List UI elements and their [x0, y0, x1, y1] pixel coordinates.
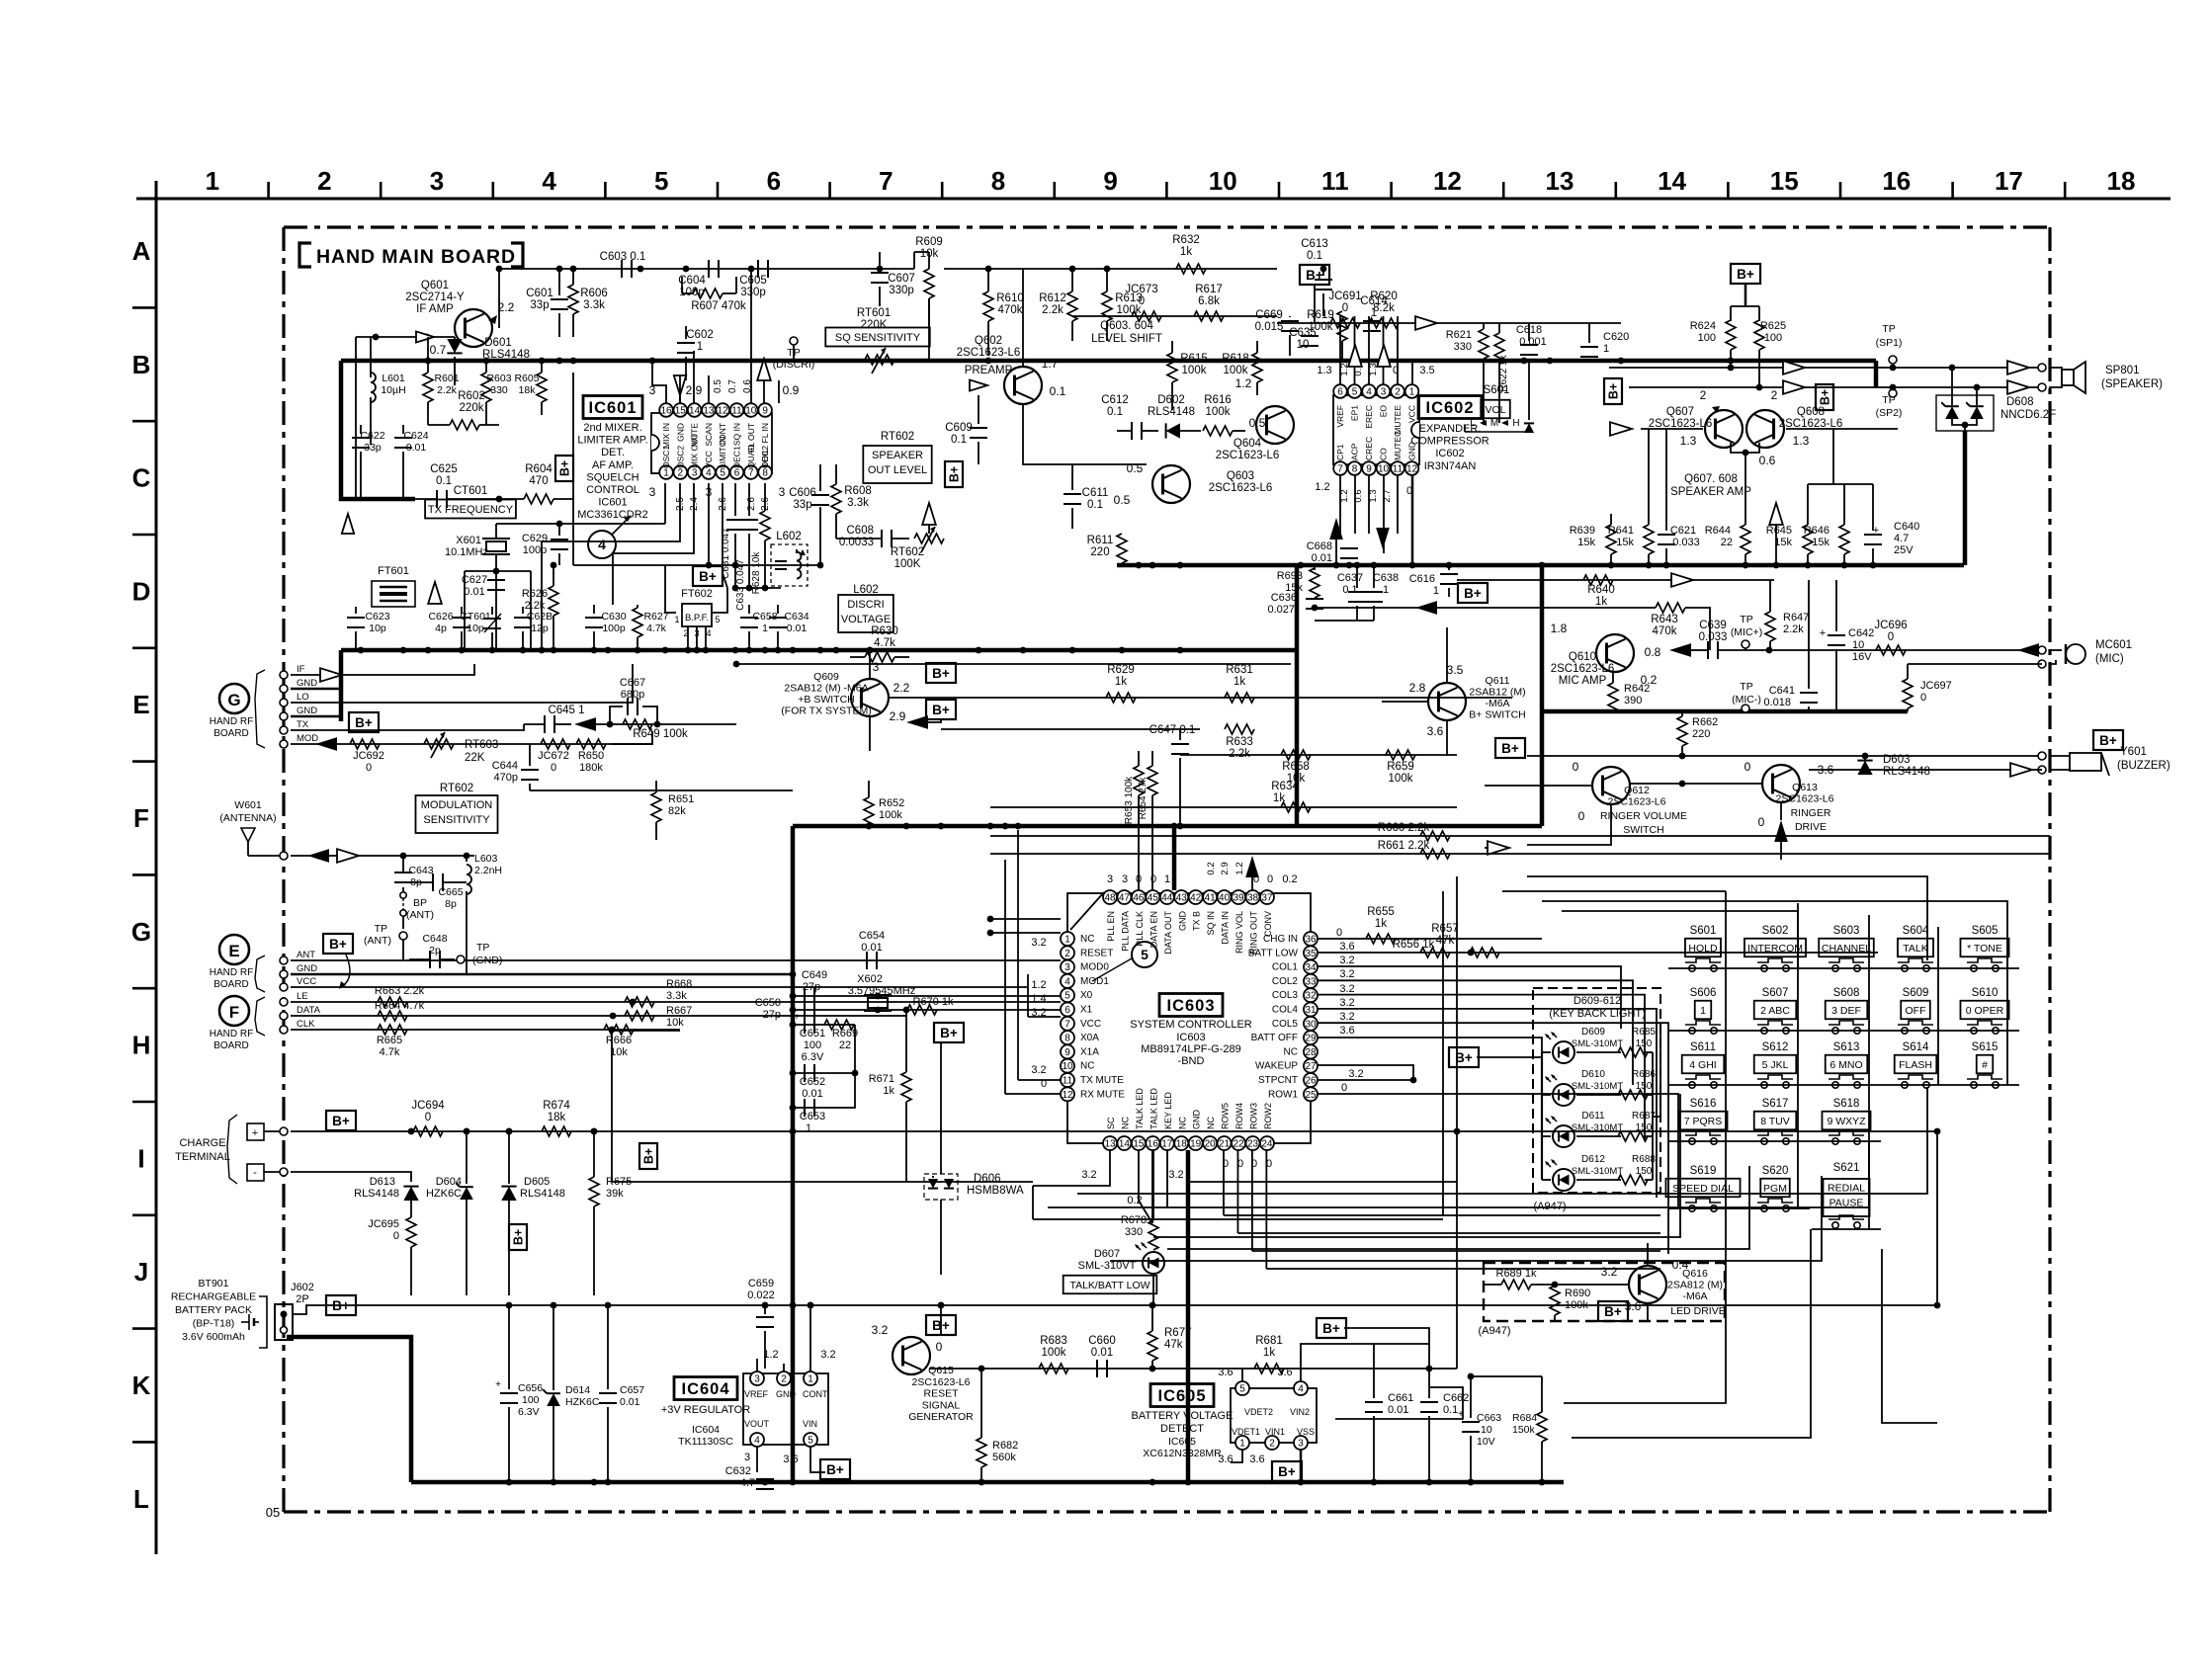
svg-text:100k: 100k	[1224, 365, 1248, 376]
svg-text:3: 3	[1298, 1439, 1304, 1450]
svg-text:R629: R629	[1107, 664, 1135, 676]
svg-text:C643: C643	[408, 865, 433, 876]
wire nest br 6	[612, 1181, 1033, 1183]
svg-text:-M6A: -M6A	[1485, 698, 1509, 709]
capacitor C607	[871, 252, 889, 306]
svg-text:33p: 33p	[793, 499, 811, 511]
svg-text:R661 2.2k: R661 2.2k	[1378, 840, 1430, 852]
svg-text:2.2k: 2.2k	[1042, 304, 1063, 316]
inductor L602 coil	[775, 549, 806, 579]
wire r669 corner	[854, 1025, 856, 1073]
label D612	[1572, 1154, 1623, 1177]
svg-text:330: 330	[490, 384, 508, 396]
svg-text:SC: SC	[1106, 1117, 1116, 1129]
svg-text:10: 10	[1209, 166, 1237, 196]
svg-text:EP1: EP1	[1350, 405, 1360, 421]
column tick 3|4	[491, 182, 494, 199]
svg-text:18: 18	[1176, 1139, 1188, 1150]
board outline dash-dot right	[2048, 227, 2051, 1512]
resistor R671	[869, 1007, 911, 1182]
switch S621 REDIAL PAUSE	[1823, 1162, 1869, 1228]
svg-text:5: 5	[1239, 1384, 1245, 1395]
svg-text:RESET: RESET	[1080, 948, 1113, 958]
label Q604	[1216, 438, 1280, 461]
arrow filled left q609	[906, 715, 941, 729]
svg-text:COL4: COL4	[1272, 1005, 1299, 1016]
svg-text:STPCNT: STPCNT	[1258, 1075, 1298, 1086]
svg-text:0: 0	[1336, 927, 1342, 939]
wire col lines	[1318, 966, 1668, 1254]
label Q616	[1667, 1268, 1726, 1317]
connector charge brace	[227, 1115, 237, 1184]
svg-text:(ANT): (ANT)	[406, 909, 434, 921]
wire spk base right	[1786, 429, 1898, 464]
capacitor C609	[970, 395, 987, 464]
capacitor C638	[1365, 565, 1399, 621]
svg-text:5: 5	[1141, 947, 1149, 962]
resistor R604	[496, 494, 573, 504]
arrow filled left MOD	[315, 737, 337, 751]
wire antenna line	[248, 852, 474, 860]
capacitor C605	[758, 260, 768, 278]
B+ boxed vertical d605	[509, 1224, 527, 1250]
svg-text:+: +	[252, 1127, 258, 1139]
svg-text:3: 3	[430, 166, 444, 196]
inductor L602 dashed box	[771, 544, 808, 586]
svg-text:TP: TP	[1740, 614, 1752, 625]
wire reset row	[929, 1366, 1457, 1372]
svg-text:D607: D607	[1094, 1248, 1120, 1260]
svg-text:ACP: ACP	[1350, 443, 1360, 460]
svg-text:C626: C626	[428, 611, 453, 623]
svg-text:C667: C667	[620, 677, 645, 689]
svg-text:X0: X0	[1080, 990, 1093, 1001]
svg-text:220: 220	[1090, 546, 1109, 558]
svg-text:12: 12	[718, 406, 729, 417]
resistor R617	[1194, 311, 1224, 321]
capacitor C602	[677, 326, 695, 380]
svg-text:R652: R652	[879, 797, 904, 809]
resistor R618	[1252, 341, 1262, 395]
svg-text:12: 12	[1433, 166, 1462, 196]
svg-text:2.6: 2.6	[746, 497, 757, 511]
svg-text:DATA IN: DATA IN	[1221, 911, 1231, 945]
svg-text:C642: C642	[1848, 627, 1874, 639]
svg-text:Q610: Q610	[1569, 651, 1596, 663]
wire G GND2	[291, 715, 341, 718]
B+ boxed symbol buz r	[2093, 730, 2123, 750]
B+ boxed rot c620	[1604, 378, 1622, 404]
svg-text:12p: 12p	[531, 623, 549, 634]
ground arrow TP DISCRI	[757, 359, 771, 403]
label C603	[600, 251, 646, 263]
svg-text:L601: L601	[382, 373, 405, 384]
svg-text:Q603: Q603	[1227, 470, 1254, 482]
wire preamp v	[1023, 269, 1147, 464]
arrow filled down ic602	[1376, 528, 1390, 549]
svg-text:IC604: IC604	[681, 1380, 729, 1398]
svg-text:R650: R650	[578, 750, 604, 762]
label D609	[1572, 1027, 1623, 1049]
wire bold gnd pin43 IC603	[1172, 826, 1177, 890]
svg-text:R667: R667	[666, 1005, 692, 1017]
svg-text:FLASH: FLASH	[1899, 1059, 1932, 1071]
svg-text:R662: R662	[1692, 716, 1718, 728]
component J602 connector	[259, 1296, 293, 1348]
svg-text:(ANT): (ANT)	[364, 935, 391, 947]
wire c659	[762, 1302, 769, 1314]
svg-text:220k: 220k	[460, 402, 484, 414]
label C614	[1360, 295, 1388, 319]
svg-text:S610: S610	[1972, 987, 1999, 999]
column label 12	[1433, 166, 1462, 196]
column label 16	[1882, 166, 1911, 196]
svg-text:3.6: 3.6	[1218, 1367, 1233, 1378]
svg-text:ROW1: ROW1	[1268, 1089, 1298, 1100]
svg-text:4: 4	[754, 1436, 760, 1447]
arrow filled left mic	[1669, 643, 1691, 657]
column label 7	[879, 166, 893, 196]
svg-text:SML-310MT: SML-310MT	[1572, 1166, 1623, 1177]
svg-text:14: 14	[1658, 166, 1686, 196]
svg-text:SENSITIVITY: SENSITIVITY	[423, 814, 490, 826]
label FT602	[681, 588, 713, 600]
diode D606 pair	[924, 1164, 958, 1200]
svg-text:150: 150	[1636, 1081, 1653, 1092]
svg-text:C62B: C62B	[527, 611, 553, 623]
node dots battery line	[506, 1302, 1941, 1309]
transistor Q602	[970, 367, 1042, 404]
svg-text:#: #	[1982, 1059, 1988, 1071]
svg-text:40: 40	[1219, 893, 1231, 904]
svg-text:B+: B+	[558, 460, 572, 476]
label F HAND RF BOARD	[210, 1029, 253, 1051]
op-amp IC601 body	[651, 413, 772, 473]
svg-text:D612: D612	[1581, 1154, 1605, 1165]
svg-text:HZK6C: HZK6C	[426, 1188, 462, 1200]
svg-text:R611: R611	[1087, 535, 1114, 546]
label C607	[888, 273, 915, 296]
svg-text:LIMITER AMP.: LIMITER AMP.	[577, 435, 647, 447]
svg-text:VOLTAGE: VOLTAGE	[841, 614, 891, 625]
svg-text:470k: 470k	[998, 304, 1023, 316]
transistor Q616	[1601, 1258, 1689, 1313]
B+ boxed symbol buz l	[1495, 738, 1525, 758]
wire c663 top	[1468, 1373, 1542, 1380]
transistor Q615	[872, 1323, 943, 1374]
label IC601 pin voltages bottom	[649, 485, 786, 511]
svg-text:R649 100k: R649 100k	[633, 728, 688, 740]
arrow filled up conv	[1245, 856, 1259, 890]
svg-text:2SC1623-L6: 2SC1623-L6	[1551, 663, 1615, 675]
label C604	[678, 275, 706, 298]
svg-text:R616: R616	[1204, 394, 1232, 406]
svg-text:11: 11	[1393, 464, 1404, 475]
svg-text:2SAB12 (M) -M6A: 2SAB12 (M) -M6A	[784, 683, 868, 695]
svg-text:X1A: X1A	[1080, 1046, 1099, 1057]
label Q607 608 SPEAKER AMP	[1670, 473, 1751, 498]
label R626	[522, 588, 548, 612]
svg-text:1k: 1k	[1273, 792, 1285, 804]
svg-text:3.6: 3.6	[1427, 724, 1444, 738]
svg-text:C669: C669	[1255, 309, 1283, 321]
transistor Q613	[1744, 760, 1800, 802]
wire pin15 down	[1139, 1150, 1152, 1223]
switch S612 5 JKL	[1754, 1041, 1797, 1088]
svg-text:S602: S602	[1762, 925, 1789, 937]
svg-text:22: 22	[1233, 1139, 1244, 1150]
svg-text:BOARD: BOARD	[213, 1040, 249, 1051]
svg-text:R601: R601	[434, 373, 459, 384]
resistor R689	[1484, 1268, 1629, 1289]
wire batt plus line	[293, 1305, 1937, 1314]
column tick 6|7	[828, 182, 831, 199]
wire q613 down	[1780, 803, 1782, 820]
svg-text:C654: C654	[859, 930, 885, 942]
label Q610	[1551, 651, 1615, 687]
wire keypad col2 down	[1572, 1229, 1811, 1438]
resistor R669	[824, 1020, 858, 1051]
wire G MOD	[291, 743, 652, 745]
svg-text:LE: LE	[297, 991, 308, 1002]
arrow open right f	[1485, 841, 1509, 855]
svg-text:RLS4148: RLS4148	[520, 1188, 565, 1200]
svg-text:R681: R681	[1255, 1335, 1283, 1347]
wire G LO	[291, 664, 633, 703]
svg-text:2: 2	[1700, 388, 1707, 402]
column label 15	[1770, 166, 1799, 196]
column tick 14|15	[1727, 182, 1730, 199]
resistor R688	[1618, 1175, 1653, 1185]
svg-text:Q601: Q601	[421, 280, 449, 291]
svg-text:(KEY BACK LIGHT): (KEY BACK LIGHT)	[1549, 1008, 1646, 1020]
arrow filled left mc601	[2017, 643, 2039, 657]
B+ boxed symbol q602	[945, 461, 963, 487]
label D601	[482, 337, 530, 361]
svg-text:VIN2: VIN2	[1290, 1407, 1310, 1417]
svg-text:BATT LOW: BATT LOW	[1248, 948, 1299, 958]
svg-text:1: 1	[1433, 585, 1439, 597]
resistor R606	[568, 269, 578, 337]
svg-text:B+: B+	[512, 1229, 526, 1245]
svg-text:S607: S607	[1762, 987, 1789, 999]
wire mod cont	[611, 731, 652, 744]
svg-text:S601: S601	[1690, 925, 1717, 937]
resistor R603	[481, 361, 491, 425]
svg-text:12: 12	[1406, 464, 1418, 475]
svg-text:B+: B+	[1278, 1464, 1296, 1479]
svg-text:0: 0	[1267, 873, 1273, 885]
svg-text:3.2: 3.2	[1168, 1169, 1183, 1181]
resistor R601	[423, 337, 433, 425]
svg-text:330p: 330p	[740, 287, 766, 298]
resistor JC695	[368, 1201, 416, 1295]
column tick 8|9	[1054, 182, 1057, 199]
wire c652 row	[790, 1070, 859, 1077]
svg-text:VREF: VREF	[744, 1389, 769, 1399]
svg-text:(A947): (A947)	[1533, 1201, 1566, 1212]
svg-text:IC605: IC605	[1168, 1436, 1196, 1448]
svg-text:S611: S611	[1690, 1041, 1716, 1053]
svg-text:DEC1: DEC1	[732, 446, 742, 468]
wire bottom GND bus bold	[411, 1480, 1564, 1485]
svg-text:25: 25	[1305, 1090, 1317, 1101]
label C669	[1255, 309, 1284, 333]
wire pin21-24 down	[1224, 1150, 1266, 1269]
svg-text:D608: D608	[2006, 396, 2034, 408]
svg-text:C650: C650	[755, 997, 781, 1009]
ground arrow spk	[1769, 503, 1783, 565]
row tick B	[132, 420, 156, 423]
wire ic605 loop	[1231, 1387, 1463, 1462]
svg-text:0: 0	[1342, 302, 1348, 314]
svg-text:R612: R612	[1039, 292, 1066, 304]
svg-text:DET.: DET.	[601, 447, 625, 458]
label q611 36	[1427, 724, 1444, 738]
switch S610 0 OPER	[1960, 987, 2008, 1034]
B+ boxed symbol c616	[1458, 583, 1488, 603]
svg-text:2.2k: 2.2k	[1783, 623, 1804, 635]
arrow filled left c636	[1415, 601, 1437, 615]
svg-text:CHANNEL: CHANNEL	[1822, 943, 1871, 955]
column label 2	[317, 166, 331, 196]
diode D614 zener	[543, 1305, 600, 1482]
wire nest br 2	[1077, 1087, 1927, 1194]
svg-text:S621: S621	[1833, 1162, 1860, 1174]
svg-text:R683: R683	[1040, 1335, 1067, 1347]
label Q601	[405, 280, 465, 315]
wire q611	[1382, 627, 1447, 756]
column tick 9|10	[1165, 182, 1168, 199]
component W601 antenna	[219, 799, 276, 856]
svg-text:R631: R631	[1226, 664, 1253, 676]
capacitor C647	[1149, 724, 1196, 826]
svg-text:D609-612: D609-612	[1574, 995, 1621, 1007]
test point TP MIC-	[1732, 681, 1761, 712]
svg-text:SWITCH: SWITCH	[1623, 824, 1663, 836]
svg-text:R606: R606	[580, 288, 608, 299]
svg-text:3.5: 3.5	[1419, 365, 1434, 376]
label R657	[1431, 923, 1499, 957]
B+ boxed symbol ic604	[820, 1459, 850, 1479]
wire keypad col1 down	[1564, 1208, 1726, 1403]
label C635	[1289, 327, 1317, 351]
svg-text:0: 0	[1136, 873, 1142, 885]
resistor R605	[537, 361, 547, 415]
svg-text:MC3361CDR2: MC3361CDR2	[577, 509, 648, 521]
capacitor C668	[1307, 540, 1358, 564]
svg-text:KEY LED: KEY LED	[1163, 1092, 1173, 1129]
svg-text:C641: C641	[1769, 685, 1795, 697]
svg-text:R634: R634	[1271, 781, 1299, 792]
wire jc697 line	[1908, 663, 2042, 665]
wire keypad row 3	[1668, 1084, 2019, 1086]
svg-text:14: 14	[1119, 1139, 1131, 1150]
wire keypad feed 2	[1502, 890, 1726, 892]
wire row 817	[990, 806, 1457, 808]
svg-text:JC691: JC691	[1328, 291, 1361, 302]
wire GND bus right bold	[1117, 563, 1964, 568]
arrow open right sp2b	[2007, 380, 2029, 394]
svg-text:1.2: 1.2	[1031, 979, 1046, 991]
svg-text:BOARD: BOARD	[213, 979, 249, 990]
svg-text:05: 05	[266, 1505, 280, 1520]
svg-text:2: 2	[781, 1374, 787, 1385]
svg-text:Q607. 608: Q607. 608	[1684, 473, 1738, 485]
svg-text:ROW4: ROW4	[1234, 1103, 1244, 1129]
wire mid h572	[573, 562, 820, 569]
svg-text:0.022: 0.022	[747, 1289, 775, 1301]
svg-text:R660 2.2k: R660 2.2k	[1378, 822, 1430, 834]
label IC601 functions	[577, 422, 648, 521]
svg-text:1: 1	[1700, 1005, 1706, 1017]
label RT602b	[891, 546, 924, 570]
svg-text:0.001: 0.001	[1519, 336, 1547, 348]
label Q615	[908, 1365, 974, 1423]
label q608 13	[1793, 434, 1810, 448]
wire keypad col 4	[1937, 927, 1939, 1085]
svg-text:SQUELCH: SQUELCH	[586, 471, 638, 483]
capacitor C608	[836, 530, 909, 547]
label R609	[915, 236, 943, 260]
row label L	[133, 1484, 149, 1514]
svg-text:2.2k: 2.2k	[437, 384, 458, 396]
label A947 b	[1478, 1325, 1510, 1337]
op-amp IC602 body	[1333, 395, 1419, 464]
label Q609	[781, 671, 871, 717]
svg-text:VDET1: VDET1	[1232, 1427, 1260, 1437]
svg-text:15k: 15k	[1812, 537, 1829, 548]
row tick C	[132, 534, 156, 537]
wire kp left vert	[1659, 1029, 1661, 1117]
svg-text:R693: R693	[1277, 570, 1303, 582]
wire bold D608 drop	[1963, 431, 1968, 565]
resistor R658	[1281, 750, 1311, 785]
svg-text:R668: R668	[666, 978, 692, 990]
svg-text:28: 28	[1305, 1047, 1317, 1058]
wire r681 up	[1344, 1328, 1429, 1369]
wire Q601 base	[356, 336, 455, 338]
svg-text:3: 3	[1064, 962, 1070, 973]
svg-text:C616: C616	[1409, 573, 1435, 585]
capacitor C606	[811, 464, 829, 568]
wire charge plus line	[264, 1127, 1937, 1135]
svg-text:31: 31	[1305, 1005, 1317, 1016]
svg-text:RINGER VOLUME: RINGER VOLUME	[1600, 810, 1687, 822]
led D6610	[1542, 1074, 1621, 1106]
wire bplus drop 952	[938, 1302, 945, 1336]
svg-text:COL2: COL2	[1272, 976, 1299, 987]
svg-text:MOD: MOD	[297, 733, 318, 744]
arrow open right r640	[1671, 573, 1693, 587]
svg-text:15k: 15k	[1774, 537, 1792, 548]
led D6612	[1542, 1159, 1621, 1191]
wire bold gnd IC601 left	[339, 650, 344, 721]
svg-text:S614: S614	[1903, 1041, 1929, 1053]
label D603	[1883, 754, 1930, 778]
svg-text:Q604: Q604	[1234, 438, 1262, 450]
wire led out	[1653, 1052, 1660, 1180]
svg-text:S606: S606	[1690, 987, 1717, 999]
svg-text:(A947): (A947)	[1478, 1325, 1510, 1337]
svg-text:6.3V: 6.3V	[802, 1051, 824, 1063]
label R627	[643, 611, 668, 634]
row tick D	[132, 646, 156, 649]
svg-text:1: 1	[1064, 935, 1070, 946]
svg-text:NC: NC	[1177, 1117, 1187, 1129]
switch S603 CHANNEL	[1819, 925, 1874, 971]
resistor R630	[850, 652, 909, 662]
